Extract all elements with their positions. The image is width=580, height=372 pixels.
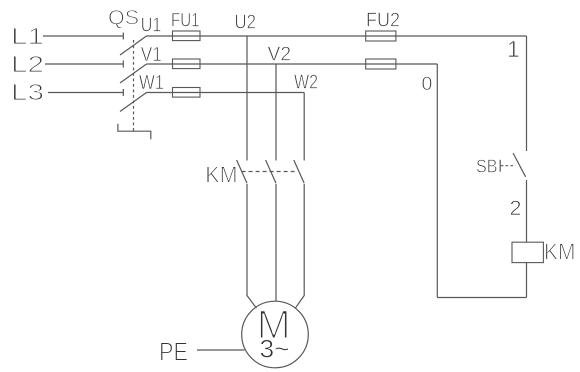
svg-text:1: 1 xyxy=(507,36,520,62)
contactor KM contact 2 xyxy=(266,160,276,183)
contactor KM linkage (dashed) xyxy=(242,171,298,173)
svg-text:L3: L3 xyxy=(11,79,44,105)
contactor KM contact 3 xyxy=(294,160,304,183)
svg-text:QS: QS xyxy=(108,7,139,30)
fuse FU2 pole 1 xyxy=(366,31,396,41)
fuse FU1 pole 1 xyxy=(173,31,201,41)
wire control rail right upper xyxy=(526,36,528,151)
wire motor lead 2 xyxy=(275,184,277,301)
wire coil to bottom xyxy=(526,263,528,298)
switch QS handle xyxy=(118,124,151,140)
wire phase V row xyxy=(147,63,438,65)
contactor KM contact 1 xyxy=(237,160,247,183)
switch QS pole 2 xyxy=(120,61,147,84)
wire PE lead xyxy=(197,349,245,351)
fuse FU2 pole 2 xyxy=(366,59,396,69)
svg-text:L2: L2 xyxy=(11,51,44,77)
switch QS pole 3 xyxy=(120,89,147,112)
svg-text:U1: U1 xyxy=(141,14,162,37)
svg-text:W2: W2 xyxy=(294,71,318,94)
svg-text:U2: U2 xyxy=(235,11,257,34)
wire phase U row xyxy=(147,35,527,37)
svg-text:2: 2 xyxy=(510,196,522,220)
wire L2 lead xyxy=(45,63,123,65)
switch QS pole 1 xyxy=(120,33,147,56)
pushbutton SB actuator xyxy=(499,160,501,172)
pushbutton SB actuator link (dashed) xyxy=(501,165,516,167)
wire motor lead 1 xyxy=(247,184,257,308)
pushbutton SB contact blade xyxy=(513,153,526,177)
svg-text:V1: V1 xyxy=(141,43,162,66)
svg-text:PE: PE xyxy=(159,339,188,367)
svg-text:V2: V2 xyxy=(268,43,292,66)
svg-text:3~: 3~ xyxy=(260,336,290,364)
switch QS linkage (dashed) xyxy=(133,40,135,131)
svg-text:W1: W1 xyxy=(139,71,164,94)
svg-text:FU1: FU1 xyxy=(171,10,200,32)
wire phase W row xyxy=(147,92,305,94)
wire control bottom return xyxy=(437,297,526,299)
motor M circle xyxy=(242,301,309,368)
svg-text:0: 0 xyxy=(422,73,433,95)
fuse FU1 pole 3 xyxy=(173,88,201,98)
wire SB to coil xyxy=(526,180,528,242)
contactor coil KM rectangle xyxy=(512,242,543,262)
wire L1 lead xyxy=(43,35,123,37)
wire control rail left xyxy=(436,64,438,298)
svg-text:SB: SB xyxy=(476,156,498,176)
wire V2 drop xyxy=(275,64,277,161)
svg-text:KM: KM xyxy=(544,239,576,265)
svg-text:KM: KM xyxy=(205,162,237,188)
wire motor lead 3 xyxy=(295,184,304,308)
fuse FU1 pole 2 xyxy=(173,59,201,69)
wire U2 drop xyxy=(246,36,248,161)
wire W2 drop xyxy=(303,93,305,161)
svg-text:L1: L1 xyxy=(11,23,44,49)
svg-text:FU2: FU2 xyxy=(366,10,400,32)
wire L3 lead xyxy=(48,92,123,94)
